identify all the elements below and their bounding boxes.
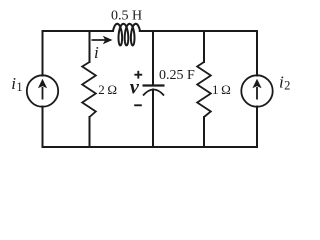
- svg-text:0.5 H: 0.5 H: [111, 8, 142, 23]
- svg-text:2 Ω: 2 Ω: [98, 82, 117, 97]
- svg-text:1 Ω: 1 Ω: [212, 82, 231, 97]
- svg-text:i2: i2: [279, 73, 290, 93]
- svg-text:v: v: [130, 77, 140, 99]
- svg-text:i: i: [94, 43, 99, 62]
- svg-text:i1: i1: [11, 74, 22, 94]
- svg-text:0.25 F: 0.25 F: [159, 68, 195, 83]
